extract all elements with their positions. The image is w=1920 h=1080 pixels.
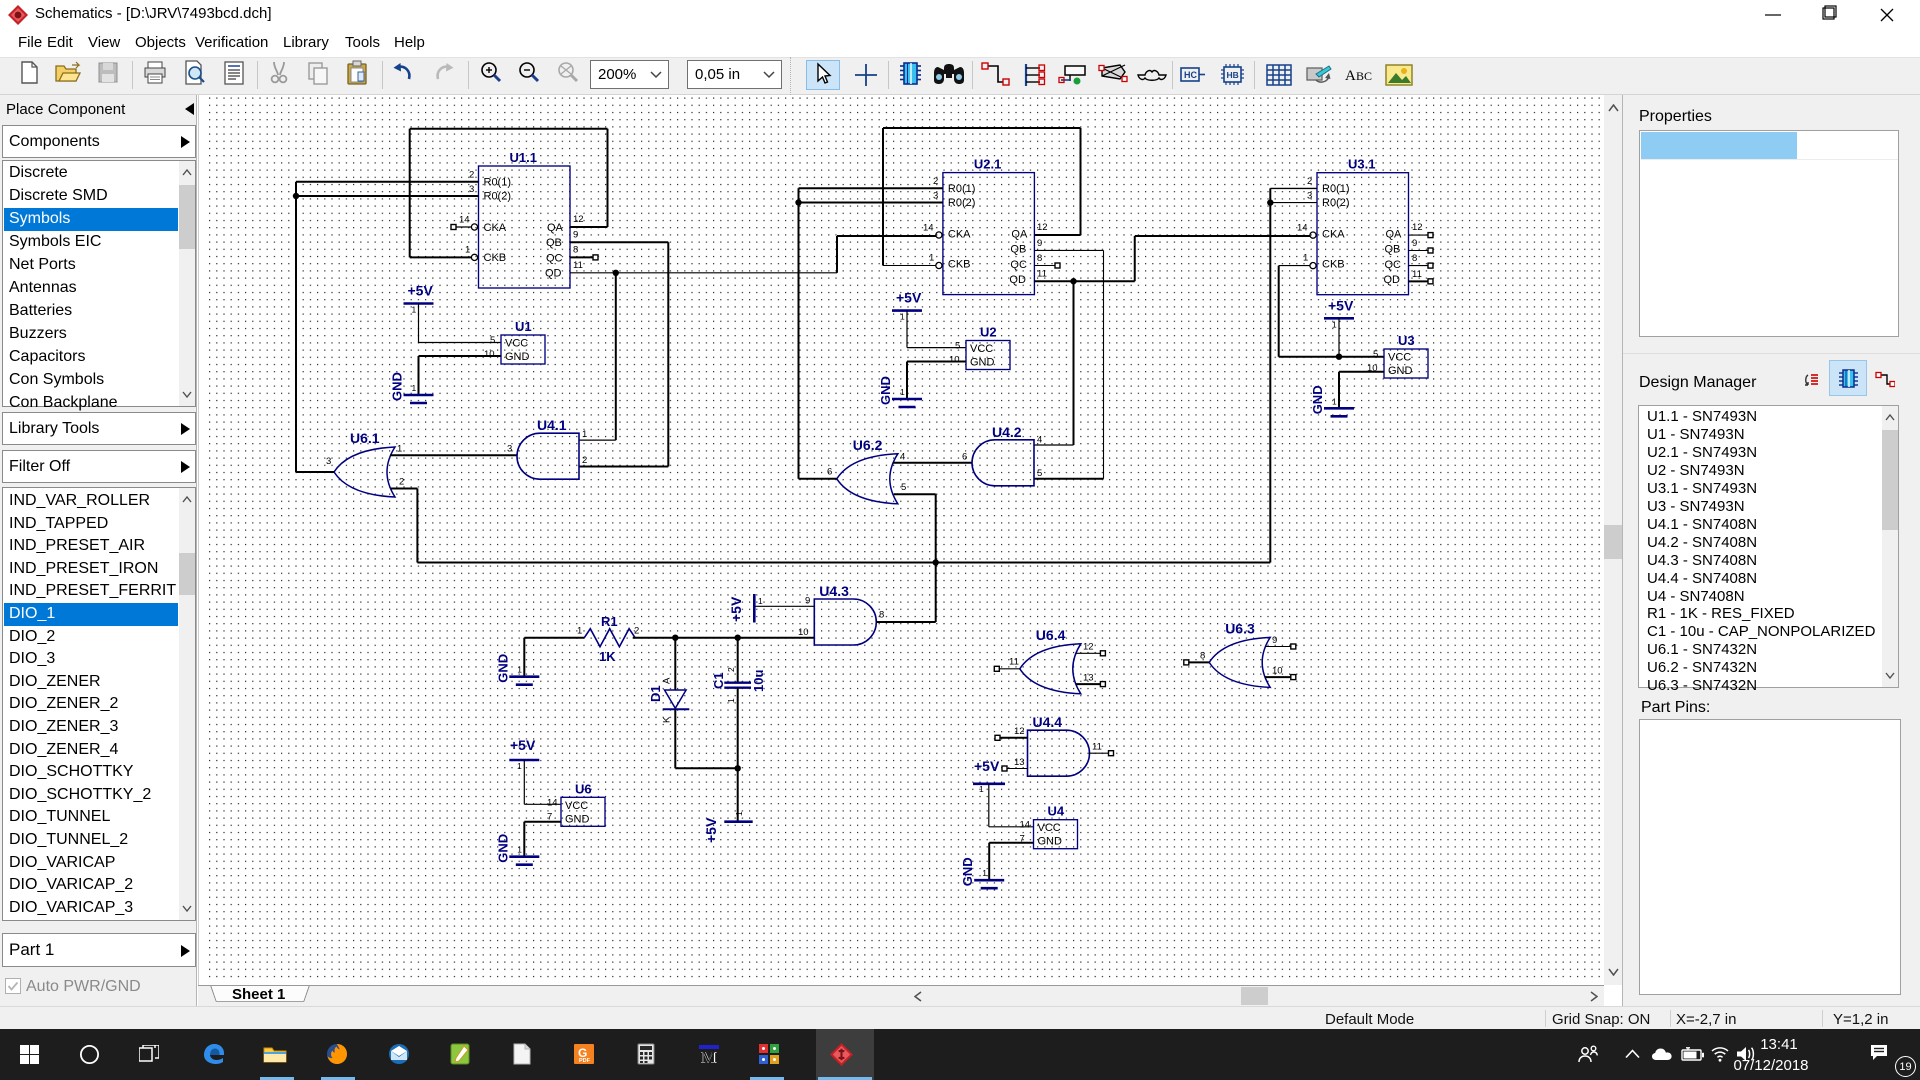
svg-text:CKB: CKB xyxy=(484,252,507,264)
svg-text:11: 11 xyxy=(573,260,583,271)
svg-text:GND: GND xyxy=(960,857,975,886)
svg-text:GND: GND xyxy=(495,654,510,683)
svg-text:8: 8 xyxy=(1200,651,1205,662)
svg-text:R0(2): R0(2) xyxy=(1322,197,1350,209)
svg-text:1: 1 xyxy=(982,868,987,878)
svg-text:U2.1: U2.1 xyxy=(974,157,1001,172)
svg-text:10u: 10u xyxy=(751,670,766,692)
svg-text:10: 10 xyxy=(798,627,809,638)
svg-text:R1: R1 xyxy=(601,614,618,629)
svg-text:3: 3 xyxy=(933,191,938,202)
svg-text:VCC: VCC xyxy=(970,343,993,355)
svg-text:U4.1: U4.1 xyxy=(537,417,567,433)
svg-text:+5V: +5V xyxy=(703,817,719,843)
svg-text:U4: U4 xyxy=(1048,804,1065,819)
svg-text:3: 3 xyxy=(469,184,474,195)
svg-text:1: 1 xyxy=(517,761,522,771)
svg-text:A: A xyxy=(1345,68,1356,84)
svg-text:QA: QA xyxy=(1386,229,1403,241)
svg-text:U3: U3 xyxy=(1398,333,1415,348)
svg-text:R0(1): R0(1) xyxy=(1322,183,1350,195)
svg-text:QB: QB xyxy=(546,237,562,249)
svg-text:11: 11 xyxy=(1009,657,1019,668)
svg-text:U4.2: U4.2 xyxy=(992,424,1022,440)
svg-text:9: 9 xyxy=(805,596,810,607)
svg-text:12: 12 xyxy=(1412,222,1423,233)
svg-text:CKB: CKB xyxy=(1322,259,1345,271)
svg-text:9: 9 xyxy=(573,230,578,241)
svg-text:10: 10 xyxy=(1272,666,1283,677)
svg-text:14: 14 xyxy=(923,223,934,234)
svg-text:2: 2 xyxy=(933,176,938,187)
svg-text:13: 13 xyxy=(1083,673,1094,684)
svg-text:12: 12 xyxy=(1037,222,1048,233)
svg-text:1: 1 xyxy=(1303,253,1308,264)
svg-text:CKA: CKA xyxy=(948,229,971,241)
svg-text:M: M xyxy=(702,1050,716,1067)
svg-text:1: 1 xyxy=(929,253,934,264)
svg-text:8: 8 xyxy=(573,245,578,256)
svg-text:3: 3 xyxy=(326,456,331,467)
svg-text:QC: QC xyxy=(1010,259,1027,271)
svg-text:U4.4: U4.4 xyxy=(1033,714,1063,730)
svg-text:1: 1 xyxy=(979,784,984,794)
svg-text:6: 6 xyxy=(827,467,832,478)
svg-text:1: 1 xyxy=(734,811,744,816)
svg-text:K: K xyxy=(662,716,673,723)
svg-text:HB: HB xyxy=(1227,70,1239,80)
svg-text:1: 1 xyxy=(412,305,417,315)
svg-text:+5V: +5V xyxy=(1328,297,1354,313)
svg-text:1: 1 xyxy=(465,245,470,256)
svg-text:R0(1): R0(1) xyxy=(484,177,512,189)
svg-text:4: 4 xyxy=(900,451,905,462)
svg-text:+5V: +5V xyxy=(510,737,536,753)
svg-text:QA: QA xyxy=(1011,229,1028,241)
svg-text:U3.1: U3.1 xyxy=(1348,157,1375,172)
svg-text:A: A xyxy=(662,677,673,684)
svg-text:C1: C1 xyxy=(711,672,726,689)
svg-text:10: 10 xyxy=(949,355,960,366)
svg-text:GND: GND xyxy=(505,351,530,363)
svg-text:5: 5 xyxy=(901,482,906,493)
svg-text:11: 11 xyxy=(1412,269,1422,280)
svg-text:3: 3 xyxy=(507,444,512,455)
svg-text:1K: 1K xyxy=(599,649,616,664)
svg-text:QD: QD xyxy=(545,268,562,280)
svg-text:1: 1 xyxy=(1332,396,1337,406)
svg-text:U6.1: U6.1 xyxy=(350,430,380,446)
svg-text:GND: GND xyxy=(495,834,510,863)
svg-text:GND: GND xyxy=(565,813,590,825)
svg-text:+5V: +5V xyxy=(896,290,922,306)
svg-text:+5V: +5V xyxy=(974,758,1000,774)
svg-text:5: 5 xyxy=(490,335,495,346)
svg-text:2: 2 xyxy=(399,477,404,488)
svg-text:U6.2: U6.2 xyxy=(853,437,883,453)
svg-text:1: 1 xyxy=(517,845,522,855)
svg-text:+5V: +5V xyxy=(728,596,744,622)
svg-text:QC: QC xyxy=(546,253,563,265)
svg-text:2: 2 xyxy=(634,626,639,637)
svg-text:D1: D1 xyxy=(648,685,663,702)
svg-text:2: 2 xyxy=(582,455,587,466)
svg-text:11: 11 xyxy=(1037,269,1047,280)
svg-text:1: 1 xyxy=(582,429,587,440)
svg-text:QA: QA xyxy=(547,222,564,234)
svg-text:U1: U1 xyxy=(515,319,532,334)
svg-text:11: 11 xyxy=(1092,742,1102,753)
svg-text:8: 8 xyxy=(1037,253,1042,264)
svg-text:VCC: VCC xyxy=(565,800,588,812)
svg-text:14: 14 xyxy=(1020,820,1031,831)
svg-text:5: 5 xyxy=(955,341,960,352)
svg-text:1: 1 xyxy=(900,312,905,322)
svg-text:3: 3 xyxy=(1307,191,1312,202)
svg-text:QB: QB xyxy=(1385,244,1401,256)
svg-text:14: 14 xyxy=(547,797,558,808)
svg-text:GND: GND xyxy=(1310,385,1325,414)
svg-text:GND: GND xyxy=(878,376,893,405)
svg-text:GND: GND xyxy=(1038,836,1063,848)
svg-text:VCC: VCC xyxy=(505,338,528,350)
svg-text:CKA: CKA xyxy=(1322,229,1345,241)
svg-text:VCC: VCC xyxy=(1038,822,1061,834)
svg-text:8: 8 xyxy=(879,610,884,621)
svg-text:1: 1 xyxy=(726,698,736,703)
svg-text:R0(2): R0(2) xyxy=(484,191,512,203)
svg-text:2: 2 xyxy=(726,667,736,672)
svg-text:1: 1 xyxy=(397,444,402,455)
svg-text:10: 10 xyxy=(484,349,495,360)
svg-text:VCC: VCC xyxy=(1388,352,1411,364)
svg-text:PDF: PDF xyxy=(579,1058,591,1064)
svg-text:1: 1 xyxy=(900,387,905,397)
svg-text:12: 12 xyxy=(1014,726,1025,737)
svg-text:CKA: CKA xyxy=(484,222,507,234)
svg-text:HC: HC xyxy=(1184,70,1197,80)
svg-text:QB: QB xyxy=(1010,244,1026,256)
svg-text:QC: QC xyxy=(1385,259,1402,271)
svg-text:GND: GND xyxy=(1388,365,1413,377)
svg-text:+5V: +5V xyxy=(408,283,434,299)
svg-text:2: 2 xyxy=(469,170,474,181)
svg-text:9: 9 xyxy=(1412,238,1417,249)
svg-text:GND: GND xyxy=(390,372,405,401)
svg-text:9: 9 xyxy=(1037,238,1042,249)
svg-text:U6.4: U6.4 xyxy=(1036,627,1066,643)
svg-text:QD: QD xyxy=(1384,274,1401,286)
svg-text:R0(2): R0(2) xyxy=(948,197,976,209)
svg-text:GND: GND xyxy=(970,357,995,369)
svg-text:1: 1 xyxy=(577,626,582,637)
svg-text:U6.3: U6.3 xyxy=(1225,620,1255,636)
svg-text:4: 4 xyxy=(1037,435,1042,446)
svg-text:CKB: CKB xyxy=(948,259,971,271)
svg-text:12: 12 xyxy=(1083,642,1094,653)
svg-text:8: 8 xyxy=(1412,253,1417,264)
svg-text:U4.3: U4.3 xyxy=(819,583,849,599)
svg-text:1: 1 xyxy=(517,665,522,675)
svg-text:9: 9 xyxy=(1272,635,1277,646)
svg-text:QD: QD xyxy=(1009,274,1026,286)
svg-text:14: 14 xyxy=(459,215,470,226)
svg-text:BC: BC xyxy=(1356,69,1372,83)
svg-text:1: 1 xyxy=(412,383,417,393)
svg-text:7: 7 xyxy=(547,811,552,822)
svg-text:12: 12 xyxy=(573,214,584,225)
svg-text:U1.1: U1.1 xyxy=(510,150,537,165)
svg-text:6: 6 xyxy=(962,451,967,462)
svg-text:14: 14 xyxy=(1297,223,1308,234)
svg-text:U2: U2 xyxy=(980,325,997,340)
svg-text:5: 5 xyxy=(1037,468,1042,479)
svg-text:13: 13 xyxy=(1014,757,1025,768)
svg-text:1: 1 xyxy=(758,596,763,606)
svg-text:2: 2 xyxy=(1307,176,1312,187)
svg-text:5: 5 xyxy=(1373,349,1378,360)
svg-text:1: 1 xyxy=(1332,319,1337,329)
svg-text:U6: U6 xyxy=(575,781,592,796)
svg-text:R0(1): R0(1) xyxy=(948,183,976,195)
